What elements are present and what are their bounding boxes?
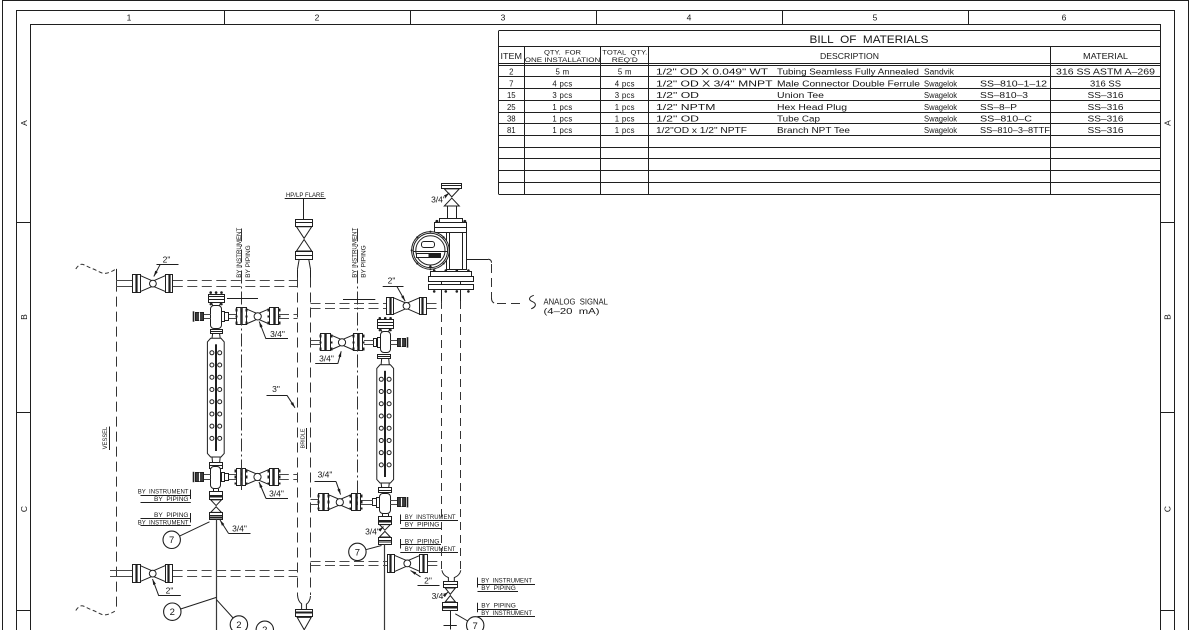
scope boundary line (left) <box>227 229 258 491</box>
right gauge top cap (plug) <box>377 317 393 332</box>
svg-text:2": 2" <box>424 575 432 585</box>
svg-text:3/4": 3/4" <box>269 489 284 499</box>
svg-text:2: 2 <box>236 620 241 630</box>
right gauge top tee body <box>381 332 391 353</box>
transmitter vent valve 3/4" <box>442 184 462 219</box>
svg-text:SS–316: SS–316 <box>1088 103 1124 112</box>
callout 2 (left tubing c) <box>256 621 273 630</box>
svg-text:7: 7 <box>169 535 174 546</box>
tubing run from right gauge drain <box>384 545 386 630</box>
svg-text:Swagelok: Swagelok <box>924 103 957 112</box>
svg-text:5 m: 5 m <box>556 68 570 77</box>
svg-text:Tube Cap: Tube Cap <box>777 115 821 124</box>
svg-text:Sandvik: Sandvik <box>924 68 954 77</box>
bridle pipe (dashed riser) <box>298 278 311 596</box>
transmitter top flange <box>435 219 467 233</box>
left gauge bottom vent valve (left branch) <box>194 472 211 482</box>
svg-text:MATERIAL: MATERIAL <box>1083 51 1128 61</box>
VESSEL label <box>102 426 110 450</box>
pipe bridle to chamber (bottom) <box>311 562 442 566</box>
2" gate valve V-top-right <box>387 297 427 314</box>
left level gauge tube <box>207 338 224 457</box>
left gauge top cap (plug) <box>208 291 225 305</box>
svg-text:2": 2" <box>166 585 174 595</box>
svg-text:1: 1 <box>127 13 132 23</box>
svg-text:Swagelok: Swagelok <box>924 79 957 88</box>
svg-text:2: 2 <box>315 13 320 23</box>
label 3/4" (left drain) <box>220 520 251 534</box>
svg-text:1/2"OD x 1/2" NPTF: 1/2"OD x 1/2" NPTF <box>656 126 747 135</box>
label 3" with leader <box>267 384 296 408</box>
svg-text:4 pcs: 4 pcs <box>552 79 572 88</box>
svg-text:7: 7 <box>509 79 513 88</box>
svg-text:3/4": 3/4" <box>232 524 247 534</box>
pipe vessel to bridle (bottom) <box>110 571 298 577</box>
svg-text:SS–316: SS–316 <box>1088 91 1124 100</box>
BY labels chamber pair B <box>478 603 536 618</box>
svg-text:5 m: 5 m <box>618 68 632 77</box>
left gauge bottom tee body <box>211 467 221 489</box>
BOM title <box>810 34 929 46</box>
label 3/4" (right gauge bottom) <box>315 470 341 495</box>
left gauge drain valve <box>209 489 222 520</box>
label 3/4" (chamber drain) <box>432 591 448 601</box>
svg-text:VESSEL: VESSEL <box>102 426 109 449</box>
2" gate valve V-top-left <box>133 275 173 293</box>
label 3/4" (left gauge bottom) <box>259 482 288 499</box>
svg-text:B: B <box>1162 314 1172 320</box>
svg-text:SS–316: SS–316 <box>1088 115 1124 124</box>
svg-text:1 pcs: 1 pcs <box>552 115 572 124</box>
svg-text:7: 7 <box>473 621 478 630</box>
analog signal line <box>467 259 536 309</box>
svg-text:Swagelok: Swagelok <box>924 126 957 135</box>
svg-text:1/2" OD X 0.049" WT: 1/2" OD X 0.049" WT <box>656 68 768 77</box>
3/4" block valve (right gauge top) <box>320 334 365 351</box>
scope boundary line (right) <box>343 229 375 506</box>
label 3/4" (transmitter vent) <box>431 193 449 205</box>
svg-text:BY PIPING: BY PIPING <box>360 245 367 278</box>
svg-text:C: C <box>1162 506 1172 512</box>
svg-text:1 pcs: 1 pcs <box>615 126 635 135</box>
svg-text:DESCRIPTION: DESCRIPTION <box>820 51 879 61</box>
svg-text:2: 2 <box>170 607 175 618</box>
BOM data rows <box>507 68 1155 136</box>
callout 7 (left drain) <box>163 522 210 549</box>
svg-text:SS–810–C: SS–810–C <box>980 115 1033 124</box>
2" gate valve V-bottom-left <box>133 565 173 583</box>
left gauge flange (bottom) <box>209 457 222 469</box>
svg-text:BY INSTRUMENT: BY INSTRUMENT <box>481 577 532 584</box>
svg-text:QTY. FOR: QTY. FOR <box>544 49 581 56</box>
pipe right-gauge-bottom to bridle <box>311 500 319 505</box>
svg-text:316 SS: 316 SS <box>1090 79 1121 88</box>
svg-text:SS–8–P: SS–8–P <box>980 103 1017 112</box>
3/4" block valve (left gauge top) <box>236 308 281 325</box>
right gauge bottom tee body <box>380 494 391 514</box>
BOM header row <box>501 49 1129 64</box>
BOM table grid <box>499 31 1161 195</box>
svg-text:TOTAL QTY.: TOTAL QTY. <box>602 49 647 56</box>
svg-text:1 pcs: 1 pcs <box>615 115 635 124</box>
svg-text:1/2" OD: 1/2" OD <box>656 91 700 100</box>
svg-text:C: C <box>19 506 29 512</box>
right gauge flange (bottom) <box>379 483 392 493</box>
3/4" block valve (left gauge bottom) <box>235 469 281 486</box>
svg-text:BY PIPING: BY PIPING <box>154 512 189 519</box>
svg-text:38: 38 <box>507 115 516 124</box>
label 2" (bottom-right) <box>411 571 440 586</box>
BY labels right gauge pair B <box>400 538 458 553</box>
svg-text:2: 2 <box>262 625 267 630</box>
svg-text:1/2" OD: 1/2" OD <box>656 115 700 124</box>
tubing run from left gauge drain <box>216 520 218 630</box>
pipe left-gauge-bottom to bridle <box>279 475 298 480</box>
svg-text:SS–316: SS–316 <box>1088 126 1124 135</box>
label 3/4" (left gauge top) <box>259 322 288 340</box>
label 2" (top-left) <box>154 255 179 277</box>
svg-text:316 SS ASTM A–269: 316 SS ASTM A–269 <box>1056 68 1155 77</box>
right gauge drain valve <box>378 514 391 545</box>
svg-text:3/4": 3/4" <box>431 195 446 205</box>
3/4" block valve (right gauge bottom) <box>318 494 363 511</box>
left gauge bottom union <box>222 473 237 482</box>
svg-text:3/4": 3/4" <box>365 527 380 537</box>
svg-text:6: 6 <box>1062 13 1067 23</box>
svg-text:SS–810–1–12: SS–810–1–12 <box>980 79 1047 88</box>
svg-text:BY PIPING: BY PIPING <box>481 585 516 592</box>
BRIDLE label <box>300 428 306 449</box>
BY INSTRUMENT / BY PIPING vertical (right) <box>352 228 368 278</box>
svg-text:1/2" NPTM: 1/2" NPTM <box>656 103 715 112</box>
svg-text:Union Tee: Union Tee <box>777 91 824 100</box>
svg-text:3: 3 <box>501 13 506 23</box>
svg-text:2": 2" <box>388 276 396 286</box>
displacer chamber (dashed) <box>442 290 461 570</box>
pipe right-gauge-top to bridle <box>311 341 321 345</box>
right level gauge tube <box>377 365 394 483</box>
svg-text:1 pcs: 1 pcs <box>615 103 635 112</box>
svg-text:Swagelok: Swagelok <box>924 91 957 100</box>
svg-text:1 pcs: 1 pcs <box>552 126 572 135</box>
chamber drain cone and valve <box>442 570 461 629</box>
svg-text:3/4": 3/4" <box>318 470 333 480</box>
svg-text:(4–20 mA): (4–20 mA) <box>544 307 600 316</box>
label 3/4" (right gauge top) <box>315 351 341 364</box>
flare valve <box>295 220 313 278</box>
callout 7 (chamber drain) <box>455 614 484 630</box>
callout 7 (right drain) <box>349 543 382 560</box>
svg-text:ITEM: ITEM <box>501 52 523 61</box>
svg-text:3 pcs: 3 pcs <box>552 91 572 100</box>
label 2" (top-right) <box>383 276 406 302</box>
right gauge flange (top) <box>378 355 392 365</box>
vessel dashed wall <box>76 264 117 615</box>
right gauge bottom union <box>361 498 380 508</box>
svg-text:SS–810–3–8TTF: SS–810–3–8TTF <box>980 126 1050 135</box>
svg-text:SS–810–3: SS–810–3 <box>980 91 1028 100</box>
svg-text:BY INSTRUMENT: BY INSTRUMENT <box>138 489 189 496</box>
left gauge top tee body <box>211 306 222 329</box>
2" gate valve V-bottom-right <box>388 555 428 573</box>
transmitter bottom flanges <box>429 269 474 293</box>
callout 2 (left tubing b) <box>216 600 247 630</box>
svg-text:1/2" OD X 3/4" MNPT: 1/2" OD X 3/4" MNPT <box>656 79 773 88</box>
HP/LP FLARE label <box>285 192 326 219</box>
svg-text:Branch NPT Tee: Branch NPT Tee <box>777 126 850 135</box>
svg-text:BY PIPING: BY PIPING <box>405 522 440 529</box>
svg-text:4 pcs: 4 pcs <box>615 79 635 88</box>
svg-text:25: 25 <box>507 103 516 112</box>
BY INSTRUMENT / BY PIPING vertical (left) <box>236 228 252 278</box>
svg-text:3 pcs: 3 pcs <box>615 91 635 100</box>
svg-text:BRIDLE: BRIDLE <box>300 428 306 448</box>
ANALOG SIGNAL label <box>544 297 609 316</box>
svg-text:7: 7 <box>355 547 360 558</box>
svg-text:B: B <box>19 314 29 320</box>
svg-text:ONE INSTALLATION: ONE INSTALLATION <box>525 57 601 64</box>
svg-text:Male Connector Double Ferrule: Male Connector Double Ferrule <box>777 79 920 88</box>
BY labels right gauge pair A <box>400 514 458 529</box>
svg-text:3/4": 3/4" <box>270 329 285 339</box>
svg-text:1 pcs: 1 pcs <box>552 103 572 112</box>
column numbers 1-6 <box>127 13 1067 23</box>
svg-text:4: 4 <box>687 13 692 23</box>
svg-text:2": 2" <box>163 255 171 265</box>
svg-text:BY PIPING: BY PIPING <box>154 496 189 503</box>
callout 2 (left tubing a) <box>164 597 217 620</box>
pipe bridle to chamber (top) <box>311 304 442 309</box>
svg-text:A: A <box>1162 120 1172 126</box>
svg-text:HP/LP FLARE: HP/LP FLARE <box>286 192 325 199</box>
label 2" (bottom-left) <box>153 579 181 596</box>
row letters A B C <box>19 120 1173 512</box>
svg-text:Swagelok: Swagelok <box>924 115 957 124</box>
svg-text:ANALOG SIGNAL: ANALOG SIGNAL <box>544 297 609 306</box>
svg-text:Hex Head Plug: Hex Head Plug <box>777 103 847 112</box>
svg-text:81: 81 <box>507 126 516 135</box>
svg-text:BY PIPING: BY PIPING <box>481 603 516 610</box>
left gauge flange (top) <box>210 330 222 339</box>
label 3/4" (right drain) <box>365 527 383 537</box>
svg-text:BY INSTRUMENT: BY INSTRUMENT <box>405 514 456 521</box>
right gauge top union <box>364 338 381 348</box>
left gauge top vent valve (left branch) <box>194 311 212 321</box>
transmitter body <box>447 233 467 270</box>
pipe left-gauge-top to bridle <box>279 315 298 319</box>
svg-text:BY PIPING: BY PIPING <box>245 245 252 278</box>
svg-text:3": 3" <box>272 384 280 394</box>
svg-text:Tubing Seamless Fully Annealed: Tubing Seamless Fully Annealed <box>777 68 919 77</box>
right gauge bottom vent valve (right branch) <box>390 497 407 507</box>
svg-text:BILL OF MATERIALS: BILL OF MATERIALS <box>810 34 929 46</box>
svg-text:A: A <box>19 120 29 126</box>
right gauge top vent valve (right branch) <box>390 337 407 347</box>
BY labels left gauge pair A <box>138 489 191 503</box>
BY labels left gauge pair B <box>138 512 191 527</box>
svg-text:2: 2 <box>509 68 513 77</box>
pipe vessel to bridle (top) <box>116 281 298 287</box>
bridle bottom drain cone <box>296 595 313 630</box>
left gauge top union <box>222 312 237 322</box>
svg-text:BY INSTRUMENT: BY INSTRUMENT <box>405 546 456 553</box>
svg-text:5: 5 <box>873 13 878 23</box>
svg-text:REQ'D: REQ'D <box>612 57 638 64</box>
svg-text:3/4": 3/4" <box>319 354 334 364</box>
BY labels chamber pair A <box>478 577 536 592</box>
svg-text:15: 15 <box>507 91 516 100</box>
transmitter head <box>411 231 450 271</box>
